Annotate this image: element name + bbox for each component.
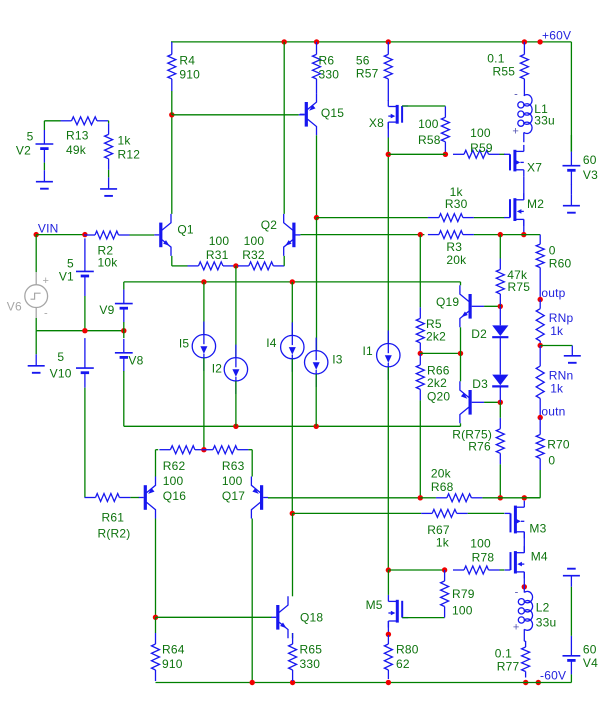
svg-text:outn: outn [541, 405, 565, 419]
wire R76 leads [499, 402, 501, 498]
wire D2-D3 [499, 337, 501, 374]
wire Q17 collector down [251, 519, 253, 683]
current source I3 [305, 338, 343, 427]
wire R75 bot [499, 305, 501, 306]
ground V2 [36, 170, 53, 189]
node dot M3 drain [522, 495, 527, 500]
current source I4 [266, 282, 304, 514]
transistor Q19 [436, 285, 484, 327]
wire Q20 base [484, 401, 500, 403]
node dot M4 source [522, 584, 527, 589]
resistor RNp [536, 300, 573, 346]
resistor R65 [289, 633, 323, 681]
node dot R77 bot [523, 680, 528, 685]
svg-text:D3: D3 [472, 377, 488, 391]
current source I2 [212, 266, 248, 426]
resistor R63 [202, 446, 249, 503]
wire R3 right [474, 234, 540, 236]
node dot R64 top [153, 615, 158, 620]
svg-text:RNp: RNp [549, 311, 574, 325]
wire V4 top [570, 587, 572, 636]
svg-text:100: 100 [452, 603, 473, 617]
node dot x420/Q17base [418, 495, 423, 500]
svg-text:I4: I4 [266, 336, 277, 350]
resistor R60 [536, 235, 571, 300]
resistor R32 [238, 234, 284, 270]
wire M5 gate-R79 [402, 617, 444, 619]
wire RN gnd [540, 345, 572, 347]
svg-text:R65: R65 [300, 643, 323, 657]
svg-text:33u: 33u [536, 616, 557, 630]
svg-text:20k: 20k [446, 253, 467, 267]
svg-text:+: + [512, 126, 519, 138]
svg-text:910: 910 [162, 657, 183, 671]
svg-text:R78: R78 [472, 550, 495, 564]
node dot R5/R66 [418, 351, 423, 356]
svg-text:1k: 1k [118, 133, 132, 147]
svg-text:M4: M4 [531, 549, 548, 563]
battery V4 [563, 636, 599, 675]
wire M3-M4 [523, 532, 525, 553]
svg-text:V3: V3 [583, 168, 598, 182]
mosfet X8 [369, 96, 408, 131]
node dot M2 source [521, 232, 526, 237]
svg-text:R30: R30 [445, 197, 468, 211]
resistor R3 [428, 231, 474, 268]
wire I4 down dot [290, 511, 295, 516]
svg-text:0: 0 [549, 243, 556, 257]
svg-text:R12: R12 [118, 147, 141, 161]
svg-text:Q19: Q19 [436, 295, 459, 309]
resistor R59 [453, 126, 500, 158]
wire Q18 emitter down [292, 633, 294, 638]
svg-text:5: 5 [67, 256, 74, 270]
node dot RN mid [538, 343, 543, 348]
svg-text:33u: 33u [534, 114, 555, 128]
resistor R61 [85, 494, 131, 541]
battery V9 [99, 290, 132, 323]
wire Q18 base wire [156, 616, 272, 618]
wire V2 to ground [43, 163, 45, 171]
node dot Q2 collector/top rail [282, 39, 287, 44]
node dot Q17c rail [250, 680, 255, 685]
svg-text:+: + [513, 622, 520, 634]
svg-text:Q16: Q16 [163, 489, 186, 503]
node dot M5 top [386, 567, 391, 572]
svg-text:100: 100 [470, 537, 491, 551]
svg-text:V6: V6 [7, 300, 22, 314]
svg-text:1k: 1k [436, 536, 450, 550]
resistor R75 [496, 235, 530, 305]
transistor Q15 [300, 93, 345, 135]
mosfet X7 [504, 145, 542, 176]
battery V1 [59, 238, 94, 330]
resistor R70 [536, 418, 570, 471]
wire R67-M3gate [468, 512, 505, 514]
node dot R75 top [498, 232, 503, 237]
node dot I3 bot [314, 424, 319, 429]
wire M5wire-R79 [388, 569, 444, 571]
wire V9 top corner [123, 282, 125, 290]
svg-text:-: - [515, 587, 519, 599]
svg-text:V2: V2 [16, 143, 31, 157]
svg-text:V1: V1 [59, 269, 74, 283]
svg-text:I2: I2 [212, 362, 223, 376]
svg-text:R64: R64 [162, 643, 185, 657]
node outn [538, 405, 566, 421]
svg-text:R32: R32 [242, 248, 265, 262]
svg-text:1k: 1k [550, 324, 564, 338]
wire Q17 base right [268, 497, 420, 499]
wire M4 src [523, 572, 525, 593]
svg-text:62: 62 [396, 657, 410, 671]
svg-text:R3: R3 [446, 240, 462, 254]
svg-text:I5: I5 [179, 337, 190, 351]
wire Q2 emitter to R32 [283, 256, 285, 266]
wire M5 source [387, 621, 389, 634]
svg-text:+60V: +60V [542, 29, 571, 43]
wire X7-M2 [523, 176, 525, 200]
resistor R2 [84, 231, 130, 269]
resistor R64 [152, 617, 185, 681]
wire X8 source [387, 122, 389, 154]
wire R67 left [292, 512, 421, 514]
resistor R77 [495, 641, 530, 678]
svg-text:100: 100 [209, 234, 230, 248]
transistor Q2 [261, 214, 301, 256]
svg-text:X8: X8 [369, 116, 384, 130]
battery V3 [563, 135, 599, 184]
wire Q15 base stub [299, 114, 305, 116]
wire Q16 emitter up [156, 450, 159, 477]
wire D3 down [499, 386, 501, 402]
svg-text:D2: D2 [471, 327, 487, 341]
resistor R57 [356, 42, 392, 96]
resistor R66 [416, 354, 450, 403]
svg-text:outp: outp [541, 286, 565, 300]
resistor R13 [61, 117, 109, 157]
wire Q15 line to I3 [316, 218, 318, 351]
svg-text:5: 5 [57, 350, 64, 364]
transistor Q18 [271, 596, 323, 638]
current source I1 [362, 154, 400, 570]
wire V8 down [123, 371, 125, 426]
svg-text:910: 910 [179, 68, 200, 82]
node dot I4 top [290, 279, 295, 284]
svg-text:Q20: Q20 [427, 389, 450, 403]
wire Q1 collector [171, 115, 173, 214]
node +60V [537, 29, 571, 45]
inductor L1 [512, 89, 555, 143]
wire R30 left [317, 217, 428, 219]
transistor Q1 [154, 214, 194, 256]
resistor R30 [428, 185, 474, 221]
diode D2 [471, 306, 508, 341]
svg-text:R68: R68 [431, 480, 454, 494]
node dot R65 rail [290, 680, 295, 685]
wire mid top [124, 281, 461, 283]
svg-text:Q18: Q18 [300, 611, 323, 625]
mosfet M3 [505, 501, 547, 539]
node dot R80 rail [386, 680, 391, 685]
svg-text:R13: R13 [66, 129, 89, 143]
svg-text:I3: I3 [332, 352, 343, 366]
wire X8 gate to R58 [402, 105, 445, 107]
node VIN [34, 222, 59, 238]
svg-text:V9: V9 [99, 303, 114, 317]
svg-text:Q2: Q2 [261, 218, 278, 232]
ground V4 inv [563, 569, 580, 587]
svg-text:330: 330 [300, 657, 321, 671]
svg-text:R62: R62 [163, 459, 186, 473]
wire X8src-R58 [388, 153, 445, 155]
wire R4-Q15 base [172, 114, 299, 116]
svg-text:-: - [514, 89, 518, 101]
resistor RNn [536, 346, 573, 418]
wire VIN down [35, 235, 37, 273]
battery V8 [115, 330, 144, 372]
svg-text:100: 100 [470, 126, 491, 140]
wire Q16 collector down [155, 519, 157, 618]
svg-text:Q15: Q15 [321, 106, 344, 120]
node dot R80 top [386, 632, 391, 637]
resistor R58 [418, 106, 449, 153]
resistor R31 [188, 234, 235, 270]
svg-text:-60V: -60V [540, 669, 566, 683]
node dot I2 bot [233, 424, 238, 429]
wire R70 down [524, 470, 540, 498]
transistor Q16 [139, 477, 186, 519]
svg-text:100: 100 [163, 474, 184, 488]
node dot R31/R32 [233, 263, 238, 268]
wire R2 to Q1 base [130, 234, 155, 236]
ground V3 [563, 194, 580, 213]
svg-text:R6: R6 [319, 53, 335, 67]
wire ground bus [36, 330, 124, 332]
svg-text:R57: R57 [356, 67, 379, 81]
resistor R78 [453, 537, 500, 574]
resistor R80 [384, 635, 418, 679]
wire Q18 collector up [292, 513, 294, 596]
node dot V1 top [82, 232, 87, 237]
wire R5R66 joint [419, 353, 421, 355]
wire L2-R77 jog [524, 640, 525, 642]
svg-text:100: 100 [418, 117, 439, 131]
wire R61-Q16 [130, 497, 139, 499]
inductor L2 [513, 587, 557, 642]
wire emitters [420, 352, 460, 354]
node outp [538, 286, 566, 302]
wire V10 down [84, 388, 86, 498]
svg-text:0: 0 [548, 453, 555, 467]
mosfet M4 [505, 546, 548, 578]
wire mid bottom [124, 425, 461, 427]
resistor R67 [421, 509, 468, 549]
node dot X8 source [386, 152, 391, 157]
svg-text:M5: M5 [366, 598, 383, 612]
resistor R5 [416, 307, 446, 354]
wire R59 to X7 gate [500, 153, 506, 155]
transistor Q20 [460, 381, 484, 423]
svg-text:2k2: 2k2 [427, 376, 447, 390]
wire R78-M4 gate [500, 569, 505, 571]
wire Q20 emitter [460, 353, 462, 381]
svg-text:R63: R63 [222, 459, 245, 473]
svg-text:R55: R55 [492, 65, 515, 79]
svg-text:0.1: 0.1 [487, 52, 504, 66]
svg-text:R61: R61 [102, 511, 125, 525]
svg-text:V4: V4 [583, 656, 598, 670]
transistor Q17 [251, 477, 268, 519]
svg-text:R75: R75 [508, 280, 531, 294]
svg-text:V8: V8 [128, 354, 143, 368]
node dot R55/top rail [522, 39, 527, 44]
svg-text:M3: M3 [529, 522, 546, 536]
node dot gnd bus V10 [82, 328, 87, 333]
node dot emitters [458, 351, 463, 356]
node dot R5 top [418, 232, 423, 237]
wire R60 corner [539, 234, 541, 236]
svg-text:Q1: Q1 [177, 222, 194, 236]
wire V3 branch down [570, 42, 572, 152]
source V6 [7, 272, 49, 319]
svg-text:R58: R58 [418, 133, 441, 147]
node dot R4 bottom [169, 112, 174, 117]
wire V10-R61 corner [84, 497, 86, 499]
resistor R12 [105, 123, 141, 169]
battery V2 [16, 121, 53, 163]
wire R12 to ground [108, 170, 110, 178]
ground RN [564, 346, 581, 363]
svg-text:Q17: Q17 [222, 489, 245, 503]
wire Q19 base [484, 305, 500, 307]
svg-text:49k: 49k [66, 143, 87, 157]
svg-text:60: 60 [583, 643, 597, 657]
node dot Q19 base [498, 304, 503, 309]
node dot R57/top rail [386, 39, 391, 44]
svg-text:10k: 10k [98, 255, 119, 269]
wire VIN to V1 [36, 234, 85, 236]
wire Q19 emitter [460, 327, 462, 353]
wire top +60V rail [171, 41, 571, 43]
svg-text:R77: R77 [497, 660, 520, 674]
svg-text:2k2: 2k2 [426, 329, 446, 343]
wire Q2 collector [283, 42, 285, 214]
node dot R79 top [442, 567, 447, 572]
wire R68 wire segs [420, 497, 540, 499]
current source I5 [179, 282, 216, 450]
svg-text:R60: R60 [549, 257, 572, 271]
mosfet M2 [504, 193, 544, 226]
svg-text:R(R2): R(R2) [98, 527, 131, 541]
ground R12 [100, 177, 117, 196]
node dot Q20 base [498, 400, 503, 405]
node dot V9/V8 [121, 328, 126, 333]
svg-text:M2: M2 [527, 197, 544, 211]
svg-text:V10: V10 [50, 367, 72, 381]
wire M2 source [523, 219, 525, 234]
wire Q2 base right [300, 234, 424, 236]
node dot R30 tap [314, 215, 319, 220]
resistor R76 [452, 418, 504, 465]
node dot R62/R63 [201, 447, 206, 452]
svg-text:-: - [44, 308, 48, 320]
wire Q20 collector [460, 423, 462, 426]
node -60V [536, 669, 567, 686]
wire V6 to gnd wire [35, 318, 37, 331]
wire Q15 collector down [316, 135, 318, 217]
svg-text:20k: 20k [431, 467, 452, 481]
resistor R62 [159, 446, 206, 488]
svg-text:RNn: RNn [549, 368, 574, 382]
svg-text:R79: R79 [452, 587, 475, 601]
wire bottom-right rail [570, 674, 572, 682]
node dot R76 bot [498, 495, 503, 500]
resistor R6 [313, 42, 340, 93]
svg-text:R59: R59 [470, 141, 493, 155]
wire V2 top [44, 120, 60, 122]
wire bottom rail [156, 682, 572, 684]
mosfet M5 [366, 595, 409, 628]
wire R66 down [419, 400, 421, 497]
resistor R79 [441, 570, 475, 618]
node dot R6/top rail [314, 39, 319, 44]
wire Q19 collector [460, 282, 462, 285]
svg-text:X7: X7 [527, 160, 542, 174]
svg-text:R4: R4 [179, 53, 195, 67]
svg-text:100: 100 [222, 474, 243, 488]
battery V10 [50, 338, 94, 388]
svg-text:L2: L2 [536, 601, 550, 615]
svg-text:R76: R76 [468, 440, 491, 454]
node dot R58 bottom [443, 152, 448, 157]
svg-text:0.1: 0.1 [495, 646, 512, 660]
svg-text:VIN: VIN [38, 222, 59, 236]
svg-text:R31: R31 [206, 248, 229, 262]
diode D3 [472, 375, 508, 391]
ground main [28, 331, 45, 373]
resistor R68 [431, 467, 483, 502]
svg-text:330: 330 [319, 68, 340, 82]
svg-text:R80: R80 [396, 643, 419, 657]
node dot I5 top [201, 279, 206, 284]
svg-text:R70: R70 [547, 438, 570, 452]
wire R63-Q17 emitter [248, 450, 252, 477]
wire V9 bot [123, 322, 125, 331]
wire R30 to M2 gate [474, 217, 504, 219]
svg-text:I1: I1 [362, 344, 373, 358]
resistor R4 [168, 42, 200, 115]
wire Q1 emitter to R31 [172, 256, 188, 266]
svg-text:5: 5 [27, 129, 34, 143]
svg-text:100: 100 [244, 234, 265, 248]
wire R5 top lead [419, 235, 421, 308]
svg-text:+: + [43, 275, 50, 287]
wire M5 drain [387, 570, 389, 595]
resistor R55 [487, 42, 528, 96]
wire V3 gnd [570, 184, 572, 194]
svg-text:60: 60 [583, 153, 597, 167]
svg-text:56: 56 [356, 53, 370, 67]
wire R13 to R12 [107, 121, 110, 124]
svg-text:1k: 1k [550, 382, 564, 396]
